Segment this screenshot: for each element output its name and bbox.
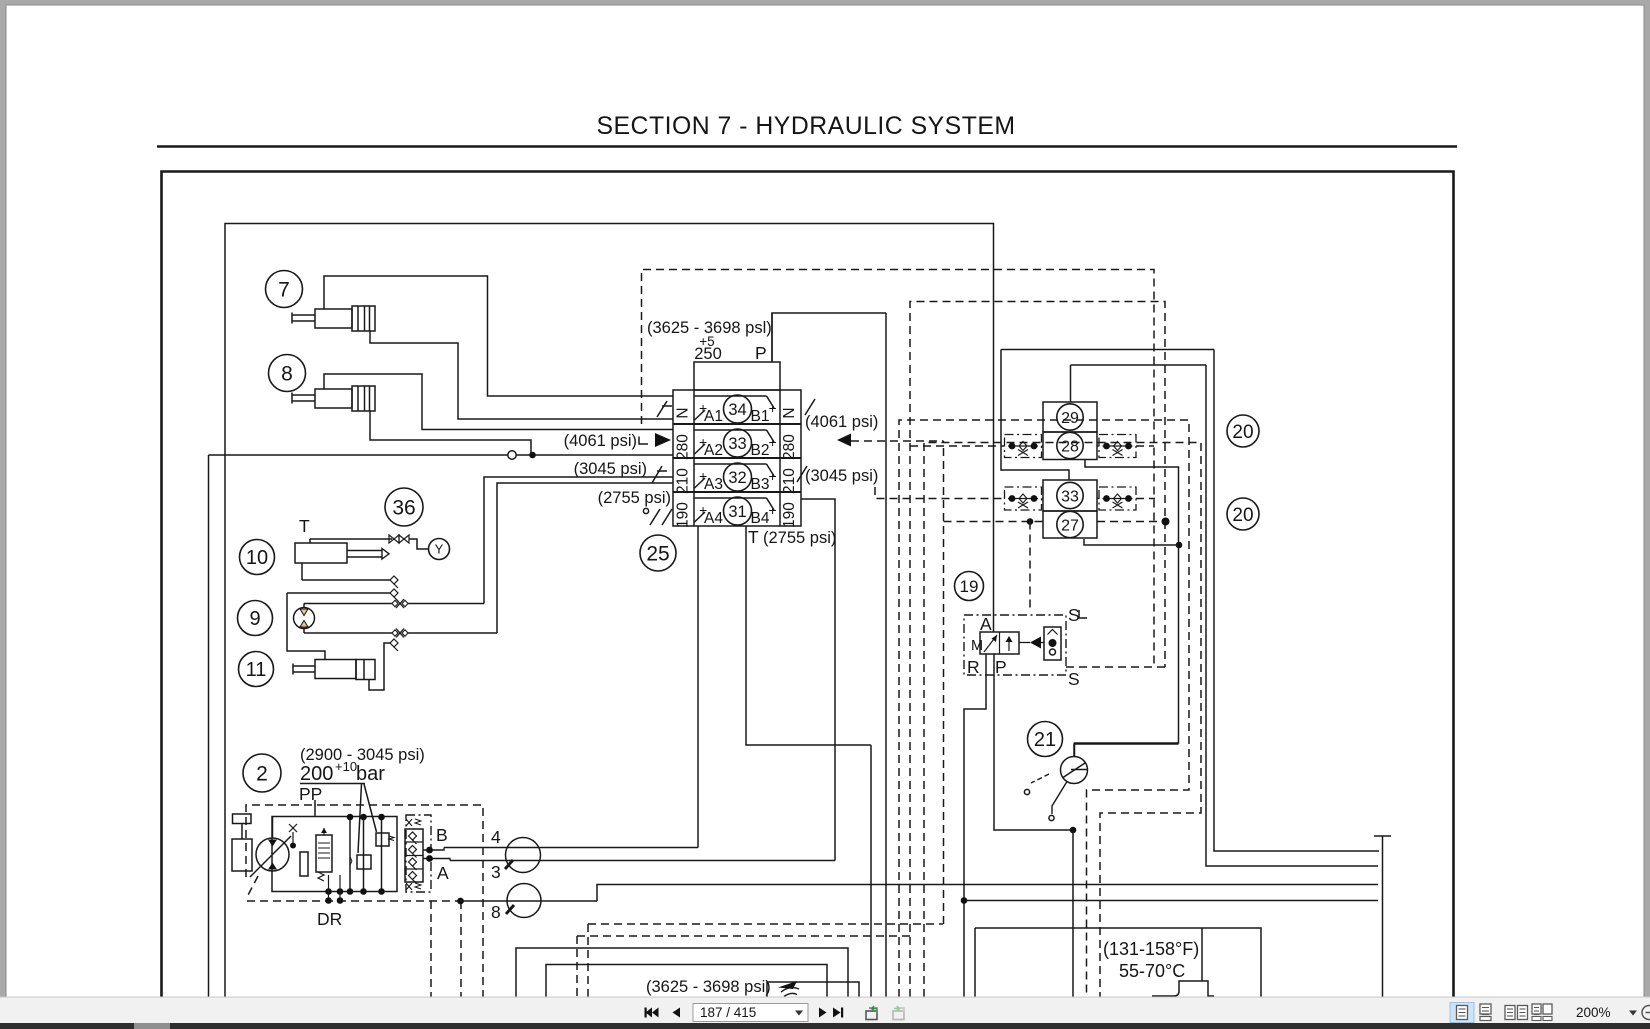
svg-text:280: 280 bbox=[781, 434, 798, 460]
svg-text:P: P bbox=[995, 657, 1007, 677]
svg-text:A1: A1 bbox=[704, 408, 723, 425]
svg-text:280: 280 bbox=[675, 434, 692, 460]
svg-text:PP: PP bbox=[299, 784, 322, 804]
svg-text:200%: 200% bbox=[1576, 1005, 1611, 1020]
svg-text:A: A bbox=[437, 863, 449, 883]
svg-text:8: 8 bbox=[491, 902, 501, 922]
svg-text:(3045 psi): (3045 psi) bbox=[574, 460, 647, 478]
svg-text:210: 210 bbox=[675, 468, 692, 494]
svg-text:+: + bbox=[769, 400, 777, 416]
svg-text:3: 3 bbox=[491, 862, 501, 882]
svg-text:33: 33 bbox=[728, 435, 746, 453]
svg-text:T: T bbox=[299, 516, 310, 536]
svg-text:25: 25 bbox=[646, 543, 669, 566]
svg-text:55-70°C: 55-70°C bbox=[1119, 961, 1185, 981]
svg-text:+: + bbox=[769, 502, 777, 518]
svg-text:A3: A3 bbox=[704, 476, 723, 493]
svg-text:8: 8 bbox=[281, 363, 293, 386]
svg-text:250: 250 bbox=[694, 345, 722, 363]
svg-text:36: 36 bbox=[392, 497, 415, 520]
svg-text:(4061 psi): (4061 psi) bbox=[805, 413, 878, 431]
svg-text:B1: B1 bbox=[751, 408, 770, 425]
svg-text:20: 20 bbox=[1232, 505, 1253, 526]
svg-text:28: 28 bbox=[1061, 438, 1079, 455]
svg-text:11: 11 bbox=[246, 659, 267, 681]
svg-text:31: 31 bbox=[728, 503, 746, 521]
svg-text:A2: A2 bbox=[704, 442, 723, 459]
svg-text:2: 2 bbox=[256, 763, 268, 786]
svg-text:200: 200 bbox=[300, 763, 333, 785]
svg-text:190: 190 bbox=[675, 502, 692, 528]
svg-text:S: S bbox=[1068, 669, 1080, 689]
svg-text:27: 27 bbox=[1061, 517, 1079, 534]
svg-text:A4: A4 bbox=[704, 510, 723, 527]
svg-text:(2755 psi): (2755 psi) bbox=[763, 529, 836, 547]
svg-text:A: A bbox=[980, 614, 992, 634]
svg-text:(2755 psi): (2755 psi) bbox=[598, 489, 671, 507]
svg-text:M: M bbox=[971, 638, 983, 654]
svg-text:T: T bbox=[748, 527, 759, 547]
svg-text:19: 19 bbox=[960, 577, 979, 596]
svg-text:29: 29 bbox=[1061, 410, 1079, 427]
svg-text:9: 9 bbox=[249, 608, 260, 630]
svg-text:R: R bbox=[967, 657, 980, 677]
svg-text:33: 33 bbox=[1061, 488, 1079, 505]
svg-text:DR: DR bbox=[317, 909, 342, 929]
svg-text:N: N bbox=[675, 407, 692, 418]
svg-text:P: P bbox=[755, 343, 767, 363]
svg-text:190: 190 bbox=[781, 502, 798, 528]
svg-text:B4: B4 bbox=[751, 510, 770, 527]
svg-text:+: + bbox=[769, 468, 777, 484]
svg-text:187 / 415: 187 / 415 bbox=[700, 1005, 756, 1020]
svg-text:B2: B2 bbox=[751, 442, 770, 459]
svg-text:4: 4 bbox=[491, 827, 501, 847]
svg-text:SECTION 7 - HYDRAULIC SYSTEM: SECTION 7 - HYDRAULIC SYSTEM bbox=[596, 113, 1015, 140]
svg-text:N: N bbox=[781, 407, 798, 418]
svg-text:20: 20 bbox=[1232, 422, 1253, 443]
svg-text:S: S bbox=[1068, 605, 1080, 625]
svg-text:34: 34 bbox=[728, 401, 746, 419]
svg-text:B: B bbox=[436, 825, 448, 845]
svg-text:bar: bar bbox=[356, 763, 385, 785]
svg-text:210: 210 bbox=[781, 468, 798, 494]
svg-text:(3045 psi): (3045 psi) bbox=[805, 467, 878, 485]
svg-text:10: 10 bbox=[246, 547, 268, 569]
svg-text:32: 32 bbox=[728, 469, 746, 487]
svg-text:21: 21 bbox=[1034, 729, 1056, 751]
svg-text:(2900 - 3045 psi): (2900 - 3045 psi) bbox=[300, 746, 425, 764]
svg-text:+: + bbox=[769, 434, 777, 450]
svg-text:(131-158°F): (131-158°F) bbox=[1103, 939, 1199, 959]
svg-text:+10: +10 bbox=[335, 759, 357, 774]
svg-text:(3625 - 3698 psi): (3625 - 3698 psi) bbox=[646, 978, 771, 996]
svg-text:B3: B3 bbox=[751, 476, 770, 493]
svg-text:7: 7 bbox=[278, 279, 290, 302]
svg-text:(4061 psi): (4061 psi) bbox=[564, 432, 637, 450]
svg-text:Y: Y bbox=[435, 542, 444, 557]
